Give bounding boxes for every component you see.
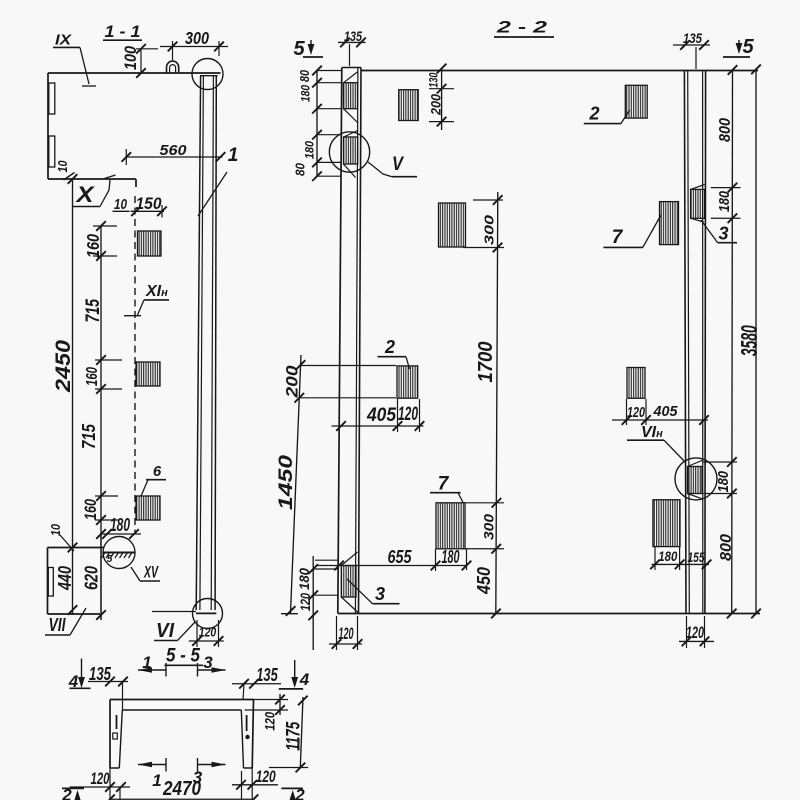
svg-text:200: 200 [428,94,444,116]
svg-text:XV: XV [143,564,159,582]
svg-text:4: 4 [299,670,310,689]
svg-text:3: 3 [718,224,728,244]
svg-text:7: 7 [612,227,624,248]
svg-text:10: 10 [114,196,128,213]
svg-text:1450: 1450 [275,455,297,510]
svg-text:10: 10 [55,160,70,173]
svg-text:2 - 2: 2 - 2 [496,18,548,37]
svg-text:180: 180 [305,140,317,159]
svg-text:180: 180 [442,547,460,567]
svg-text:150: 150 [136,194,162,213]
svg-text:155: 155 [688,549,705,565]
svg-text:1: 1 [142,653,151,672]
svg-text:800: 800 [717,118,734,142]
svg-text:715: 715 [79,423,99,449]
svg-text:80: 80 [294,163,308,176]
svg-text:2: 2 [588,104,599,124]
svg-text:5 - 5: 5 - 5 [166,646,200,667]
svg-text:X: X [74,182,95,207]
svg-text:160: 160 [83,234,103,258]
svg-text:3580: 3580 [736,325,762,356]
svg-text:180: 180 [299,85,313,102]
svg-text:VII: VII [49,615,67,635]
svg-text:120: 120 [256,767,276,786]
svg-text:180: 180 [110,515,130,535]
svg-text:300: 300 [185,28,209,48]
svg-text:VI: VI [156,620,174,642]
svg-text:120: 120 [627,405,645,421]
svg-text:2470: 2470 [162,778,201,800]
svg-text:1700: 1700 [475,342,497,383]
svg-text:2: 2 [61,786,72,800]
svg-text:300: 300 [482,513,497,540]
svg-text:7: 7 [438,474,450,495]
svg-text:405: 405 [366,405,396,426]
svg-text:620: 620 [82,566,102,590]
svg-text:450: 450 [474,567,494,595]
svg-text:160: 160 [81,499,100,520]
svg-text:2: 2 [384,337,395,357]
svg-text:5: 5 [742,36,754,58]
svg-text:6: 6 [153,463,162,480]
svg-text:180: 180 [715,470,732,492]
svg-text:120: 120 [297,593,313,611]
svg-text:200: 200 [284,365,302,399]
svg-text:300: 300 [481,214,496,245]
svg-text:V: V [392,154,404,175]
svg-text:655: 655 [388,547,413,567]
svg-text:180: 180 [658,548,677,564]
svg-text:135: 135 [256,665,278,685]
svg-text:440: 440 [55,566,75,591]
svg-text:180: 180 [296,568,312,590]
svg-text:1 - 1: 1 - 1 [105,22,141,41]
svg-text:80: 80 [298,70,312,82]
svg-text:800: 800 [718,534,735,561]
svg-text:1: 1 [228,145,239,166]
svg-text:3: 3 [375,584,385,604]
svg-text:180: 180 [716,190,733,212]
svg-text:130: 130 [427,72,441,87]
svg-text:1: 1 [152,771,161,790]
svg-text:10: 10 [48,523,63,536]
svg-text:2: 2 [294,786,305,800]
svg-text:160: 160 [84,367,101,386]
svg-text:405: 405 [653,404,679,420]
svg-text:120: 120 [91,769,110,788]
svg-text:IX: IX [55,32,72,49]
svg-text:715: 715 [83,299,104,323]
svg-text:3: 3 [203,653,213,672]
svg-text:2450: 2450 [52,340,75,393]
